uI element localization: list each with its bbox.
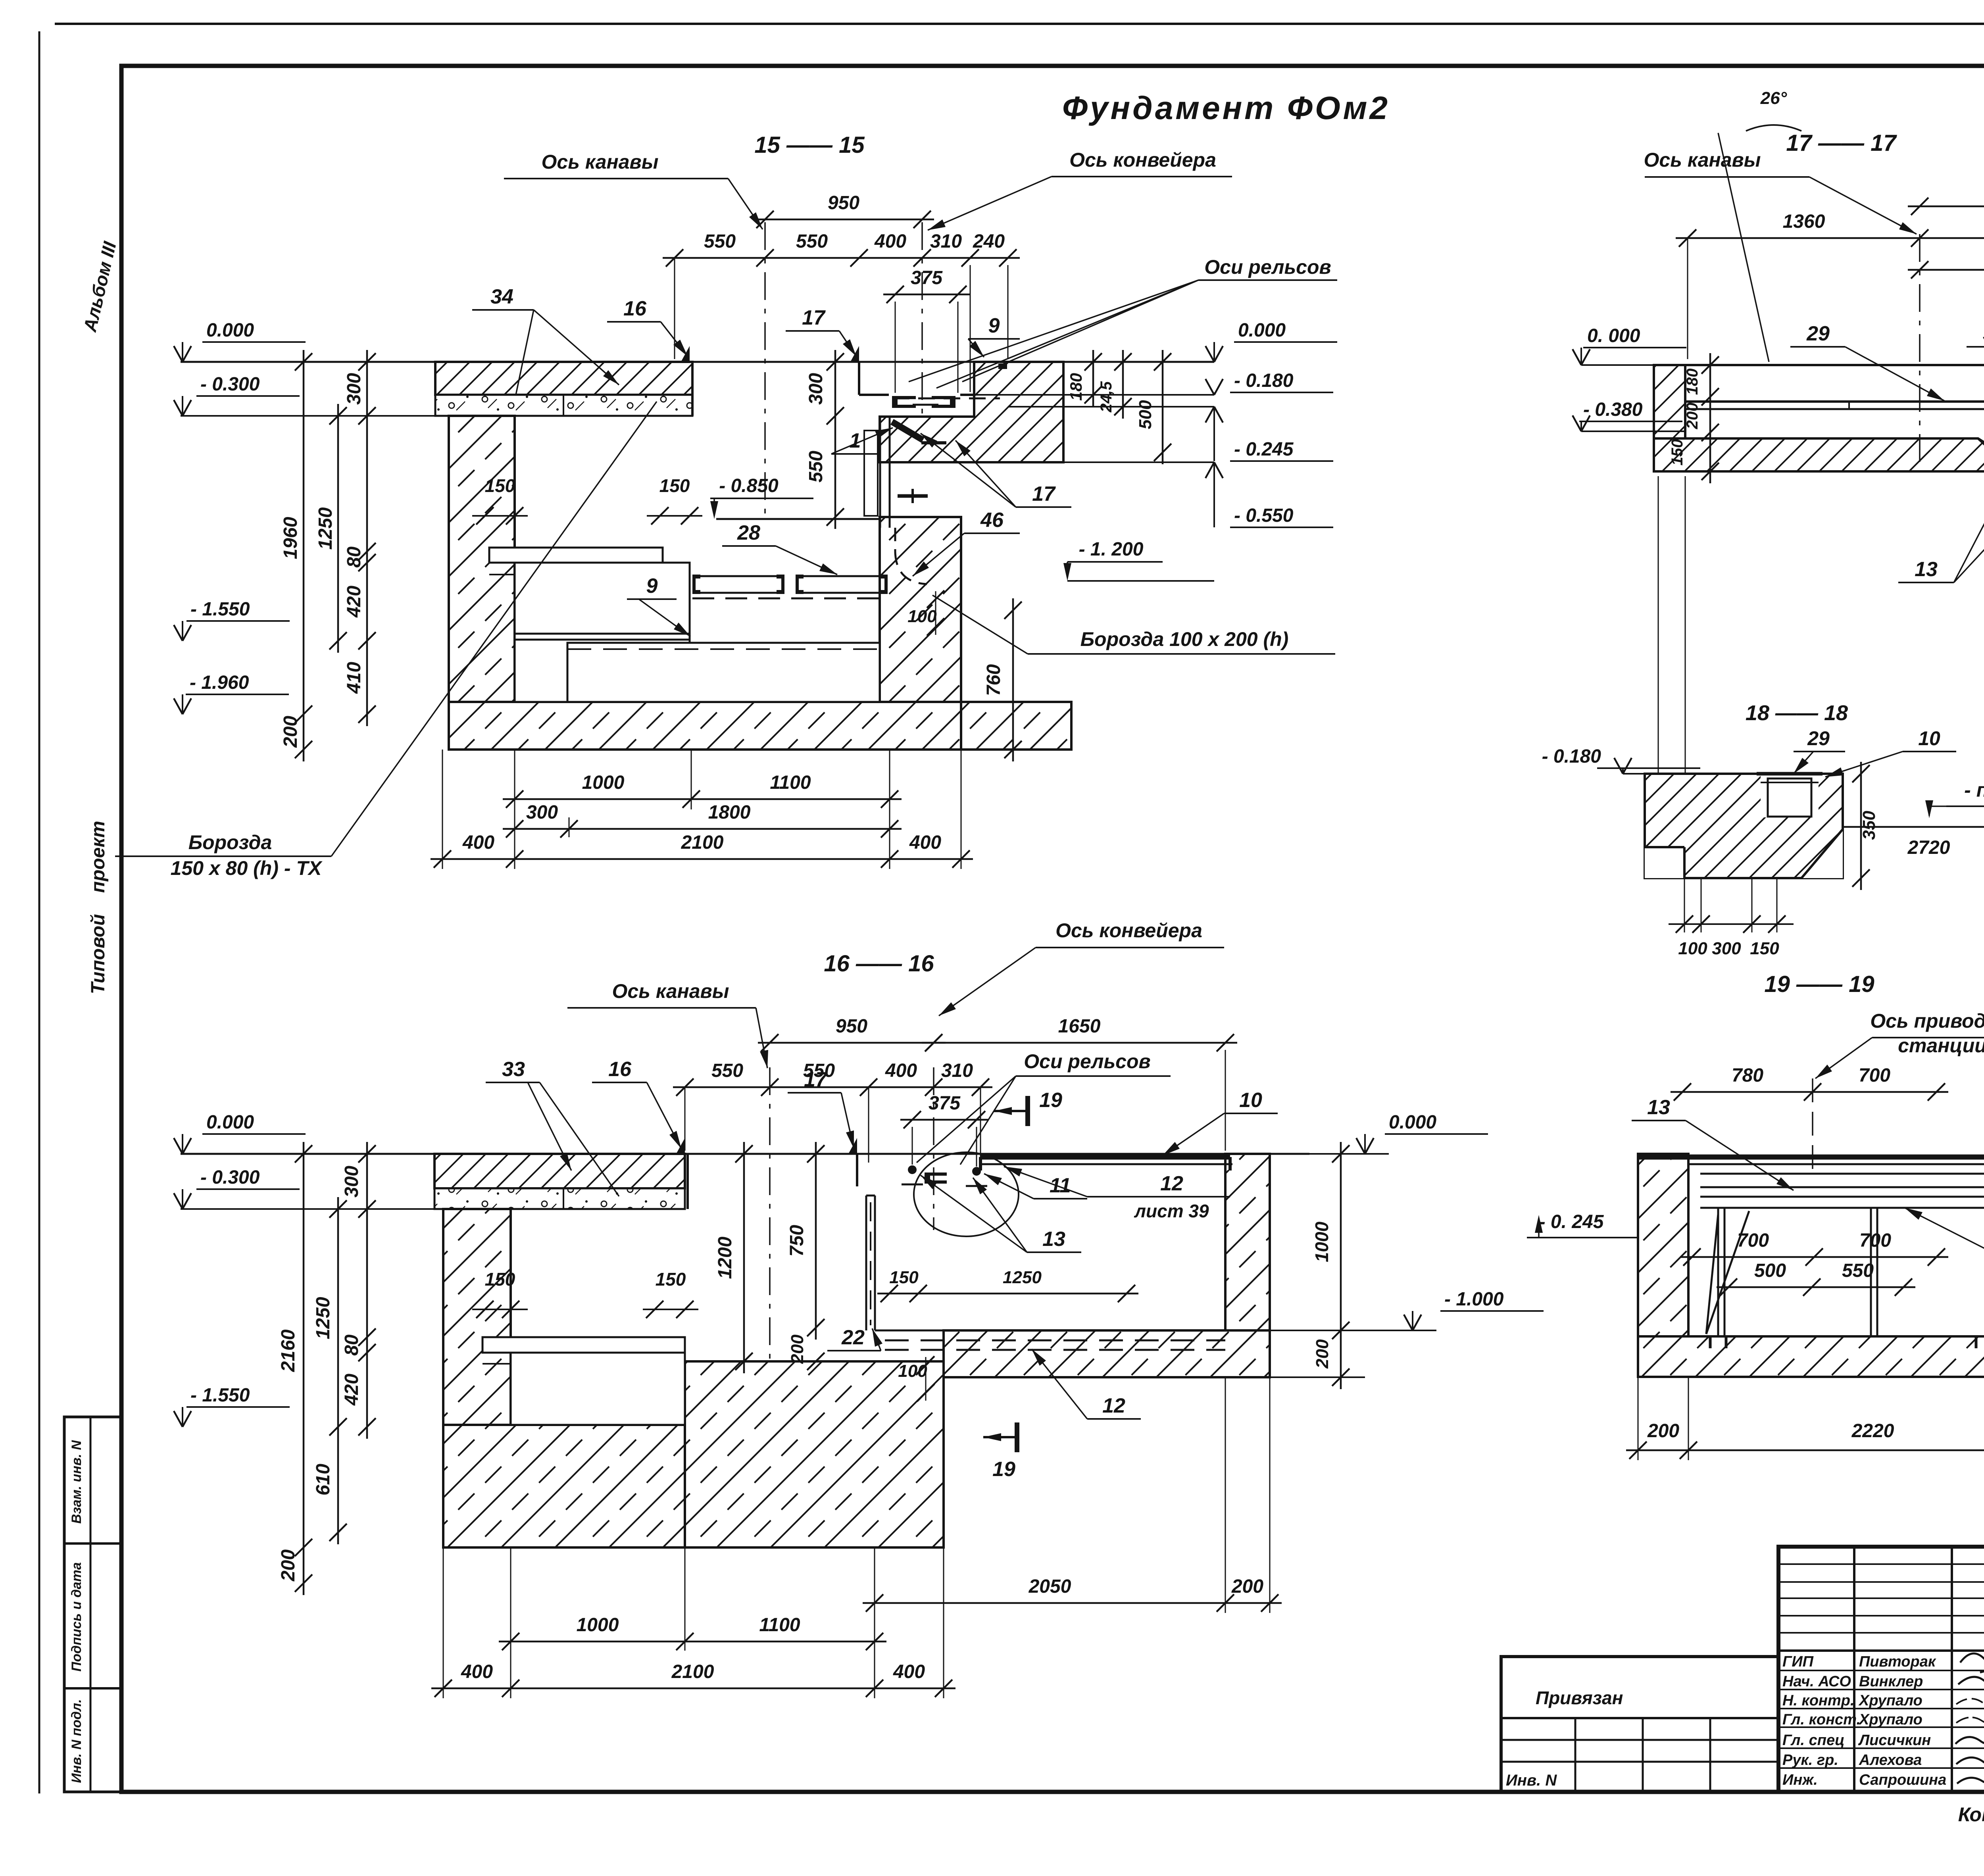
16-16 pit floor [685,1361,866,1363]
svg-text:Оси рельсов: Оси рельсов [1204,256,1331,278]
svg-text:28: 28 [737,521,760,544]
18-18 bottom-right slope cut [1801,829,1843,878]
svg-text:Взам. инв. N: Взам. инв. N [69,1440,84,1524]
svg-text:400: 400 [461,1661,493,1682]
sheet outer trim border [55,23,1984,25]
15-15 right level extension lines [1063,461,1214,463]
15-15 top dim 950 [753,219,934,221]
svg-text:100: 100 [1678,939,1707,958]
15-15 bottom foundation band [449,702,961,750]
15-15 dim 375 rails [883,294,970,296]
18-18 channel plate pos 29 [1757,772,1823,776]
16-16 section mark 19 bottom [1015,1422,1019,1452]
15-15 right lower wall [880,517,961,702]
svg-text:Алехова: Алехова [1859,1752,1922,1768]
svg-text:- 0.245: - 0.245 [1234,439,1294,460]
svg-text:1000: 1000 [1311,1221,1332,1262]
16-16 slab dotted layer [434,1188,685,1209]
svg-text:46: 46 [980,509,1004,532]
svg-text:0.000: 0.000 [206,320,254,341]
svg-text:150 х 80 (h) - ТХ: 150 х 80 (h) - ТХ [171,857,323,879]
15-15 left level marks [202,341,306,343]
svg-text:550: 550 [711,1060,743,1081]
19-19 conveyor frame rails [1700,1173,1984,1175]
svg-text:Ось конвейера: Ось конвейера [1055,919,1202,942]
svg-text:- 0.300: - 0.300 [200,374,260,395]
svg-text:19 —— 19: 19 —— 19 [1764,971,1874,997]
svg-text:1000: 1000 [582,772,625,793]
svg-text:1960: 1960 [280,517,301,559]
svg-text:300: 300 [806,373,827,405]
16-16 pit mouth angles [676,1138,685,1154]
svg-text:150: 150 [889,1268,919,1287]
19-19 top chain 780 700 [1671,1091,1948,1093]
svg-text:12: 12 [1102,1394,1125,1417]
svg-text:34: 34 [490,285,513,308]
svg-text:150: 150 [1669,439,1686,466]
svg-text:26°: 26° [1760,88,1787,108]
svg-text:300: 300 [344,373,365,405]
18-18 dim 350 [1860,762,1862,890]
svg-text:33: 33 [502,1058,525,1081]
svg-text:200: 200 [280,716,301,748]
svg-text:2720: 2720 [1907,837,1950,858]
svg-text:Гл. спец: Гл. спец [1782,1732,1845,1749]
15-15 gasket dashed lines [567,648,880,650]
svg-text:18 —— 18: 18 —— 18 [1746,701,1848,725]
svg-text:- 0.850: - 0.850 [719,475,779,496]
svg-text:550: 550 [796,231,828,252]
svg-text:16 —— 16: 16 —— 16 [824,951,934,976]
svg-text:- 0.300: - 0.300 [200,1167,260,1188]
15-15 axis conveyor centerline [921,222,923,421]
svg-text:1250: 1250 [315,507,336,550]
svg-text:1000: 1000 [577,1615,619,1636]
svg-text:Нач. АСО: Нач. АСО [1782,1673,1851,1690]
15-15 inner dim 300/550 [834,350,836,529]
svg-text:Оси рельсов: Оси рельсов [1024,1050,1150,1073]
15-15 white equipment box [515,563,690,702]
svg-text:16: 16 [608,1058,632,1081]
svg-text:22: 22 [841,1326,865,1349]
16-16 left dim columns [303,1142,305,1595]
svg-text:9: 9 [988,314,1000,337]
svg-text:200: 200 [1231,1576,1263,1597]
16-16 ground line [181,1153,1309,1155]
16-16 conveyor deck plate pos 10 [980,1155,1230,1160]
privyazan table [1501,1657,1778,1792]
svg-text:150: 150 [656,1269,686,1290]
svg-text:- 0.180: - 0.180 [1234,370,1294,391]
svg-text:Инв. N подл.: Инв. N подл. [69,1699,84,1783]
15-15 anchor tee [898,494,928,498]
svg-text:375: 375 [929,1093,961,1114]
svg-text:400: 400 [893,1661,925,1682]
15-15 bottom dim chains [514,750,515,869]
svg-text:- 0.380: - 0.380 [1583,399,1643,420]
svg-text:Ось канавы: Ось канавы [612,980,729,1002]
svg-text:950: 950 [828,192,859,213]
svg-text:2050: 2050 [1029,1576,1071,1597]
18-18 white channel recess [1761,774,1819,817]
svg-text:80: 80 [344,546,365,568]
17-17 left level marks [1583,347,1686,348]
19-19 mid dims 700 700 [1680,1256,1948,1258]
18-18 bottom-left notch [1645,847,1684,878]
svg-text:1200: 1200 [715,1236,736,1279]
svg-text:700: 700 [1859,1065,1890,1086]
16-16 left level marks [202,1133,306,1135]
18-18 level -0.180 [1597,767,1700,769]
svg-text:Сапрошина: Сапрошина [1859,1772,1946,1788]
svg-text:150: 150 [1750,939,1779,958]
svg-text:780: 780 [1732,1065,1763,1086]
svg-text:2100: 2100 [671,1661,714,1682]
16-16 polka ledge [483,1337,685,1353]
svg-text:Ось канавы: Ось канавы [542,151,659,173]
svg-text:200: 200 [1684,403,1701,430]
svg-text:17: 17 [1032,482,1056,506]
16-16 right level mark [1385,1133,1488,1135]
svg-text:Инв. N: Инв. N [1506,1772,1557,1789]
svg-text:- 0.180: - 0.180 [1542,746,1601,767]
19-19 drive axis [1812,1078,1813,1174]
15-15 pit inner ledge shelf (polka) [489,548,663,563]
16-16 shallow band under conveyor trench [944,1330,1270,1377]
19-19 deck plate pos 10 [1638,1155,1984,1160]
15-15 conveyor channel recess profile [859,394,889,396]
16-16 section mark 19 top [1025,1096,1030,1126]
svg-text:420: 420 [341,1374,362,1406]
svg-text:Копировал: Копировал [1958,1803,1984,1826]
svg-text:400: 400 [462,832,494,853]
17-17 top dims [1908,206,1984,208]
15-15 pit mouth embedded angle left (pos 16) [681,346,690,362]
svg-text:550: 550 [1842,1260,1874,1281]
svg-text:Борозда: Борозда [188,831,272,853]
svg-text:180: 180 [1684,369,1701,395]
svg-text:Рук. гр.: Рук. гр. [1782,1752,1838,1768]
19-19 feet bolts [1709,1336,1712,1348]
19-19 dims 500 550 [1717,1286,1915,1288]
svg-text:1100: 1100 [759,1615,800,1636]
16-16 rail bolts [908,1165,917,1174]
16-16 left wall [443,1209,511,1547]
rail channel C-profiles in recess [892,396,916,408]
svg-text:13: 13 [1042,1228,1065,1251]
15-15 support channels (pos 28) [692,575,700,594]
16-16 right wall [1225,1154,1270,1330]
svg-text:Привязан: Привязан [1536,1688,1623,1708]
svg-text:240: 240 [973,231,1005,252]
svg-text:200: 200 [788,1334,807,1364]
19-19 diagonal brace [1706,1211,1749,1334]
17-17 ground top line [1581,364,1685,366]
svg-text:100: 100 [907,607,937,626]
15-15 ground line 0.000 [181,361,1214,363]
svg-text:1250: 1250 [313,1297,334,1339]
svg-text:180: 180 [1067,373,1085,401]
19-19 bottom chain 200 2220 200 [1626,1449,1984,1451]
16-16 detail circle [914,1152,1019,1236]
svg-text:1100: 1100 [770,772,811,793]
svg-text:Пивторак: Пивторак [1859,1653,1936,1670]
svg-text:1800: 1800 [708,802,751,823]
svg-text:- переменная: - переменная [1964,779,1984,801]
17-17 trench axis [1919,234,1921,472]
svg-text:16: 16 [623,297,647,320]
svg-text:0.000: 0.000 [206,1112,254,1133]
svg-text:Н. контр.: Н. контр. [1782,1692,1855,1709]
svg-text:- 0.550: - 0.550 [1234,505,1294,526]
svg-text:Типовой проект: Типовой проект [88,821,109,994]
15-15 lower concrete pad [567,643,880,702]
svg-text:550: 550 [806,451,827,482]
svg-text:950: 950 [836,1016,867,1037]
svg-text:- 1.550: - 1.550 [190,1385,250,1406]
svg-text:2100: 2100 [681,832,724,853]
svg-text:760: 760 [983,664,1004,696]
15-15 right pocket column [879,417,881,528]
17-17 bottom slab [1654,438,1984,471]
svg-text:11: 11 [1050,1174,1071,1197]
svg-text:750: 750 [786,1225,807,1257]
svg-text:2220: 2220 [1851,1420,1894,1442]
svg-text:375: 375 [911,267,943,288]
svg-text:- 1. 200: - 1. 200 [1079,539,1144,560]
title block signature rows [1778,1563,1984,1565]
svg-text:Хрупало: Хрупало [1858,1692,1922,1709]
19-19 frame legs [1717,1208,1719,1336]
svg-text:200: 200 [1313,1339,1332,1369]
16-16 element 22 wall [865,1196,867,1330]
svg-text:400: 400 [909,832,941,853]
svg-text:400: 400 [874,231,906,252]
16-16 rail channel profile [925,1172,947,1184]
svg-text:лист 39: лист 39 [1134,1201,1209,1221]
16-16 trench floor right part [875,1330,1225,1332]
svg-text:200: 200 [278,1549,299,1582]
title block outer [1778,1547,1984,1792]
left bottom stamp column [64,1417,121,1792]
svg-text:2160: 2160 [278,1329,299,1372]
svg-text:- 0. 245: - 0. 245 [1539,1211,1604,1232]
16-16 right dims 1000/200 [1340,1142,1342,1389]
15-15 floor slab hatched [435,362,692,395]
16-16 vertical dims inside [743,1142,745,1373]
svg-text:Инж.: Инж. [1782,1772,1818,1788]
svg-text:Фундамент ФОм2: Фундамент ФОм2 [1062,90,1390,126]
15-15 top right block [880,362,1063,462]
svg-text:- 1.550: - 1.550 [190,599,250,620]
svg-text:1650: 1650 [1058,1016,1101,1037]
svg-text:- 1.000: - 1.000 [1444,1289,1504,1310]
svg-text:100: 100 [898,1361,927,1381]
15-15 top chain 550 550 400 310 240 [663,257,1020,259]
16-16 top dims [758,1042,946,1044]
svg-text:150: 150 [485,1269,515,1290]
16-16 gasket dashed pos 12 [885,1340,1225,1342]
svg-text:9: 9 [646,575,658,598]
15-15 right small dims 180/245/500 [1092,350,1094,407]
18-18 bottom chain 100 300 150 [1669,923,1794,925]
svg-text:29: 29 [1806,322,1830,345]
svg-text:13: 13 [1915,558,1938,581]
svg-text:300: 300 [341,1166,362,1197]
svg-text:Ось приводной: Ось приводной [1870,1010,1984,1032]
svg-text:15 —— 15: 15 —— 15 [754,132,865,158]
19-19 box bottom slab [1638,1336,1984,1377]
svg-text:1360: 1360 [1783,211,1825,232]
15-15 drain pipe pos 46 dashed [895,552,927,584]
svg-text:17: 17 [802,306,826,329]
svg-text:17: 17 [804,1068,828,1091]
svg-text:350: 350 [1859,811,1879,840]
15-15 slab base dotted layer [435,395,692,416]
svg-text:300: 300 [1712,939,1741,958]
15-15 pit floor step -0.850 [716,518,880,520]
svg-text:200: 200 [1647,1420,1679,1442]
15-15 pit mouth embedded angle right (pos 17) [850,346,859,362]
svg-text:410: 410 [344,662,365,694]
svg-text:550: 550 [704,231,736,252]
16-16 floor slab hatched [434,1154,685,1188]
svg-text:Ось конвейера: Ось конвейера [1069,149,1216,171]
16-16 deep mass under pit [685,1361,944,1547]
svg-text:1: 1 [850,429,861,452]
15-15 axis trench centerline [764,222,766,516]
svg-text:150: 150 [485,475,515,496]
15-15 dim 760 [1012,598,1014,761]
15-15 left dim column 1960/1250/300 [303,350,305,761]
svg-text:310: 310 [941,1060,973,1081]
svg-text:29: 29 [1807,727,1830,750]
svg-text:24,5: 24,5 [1098,381,1115,413]
svg-text:Подпись и дата: Подпись и дата [69,1562,84,1672]
svg-text:80: 80 [341,1334,362,1356]
svg-text:0. 000: 0. 000 [1587,325,1640,346]
svg-text:Винклер: Винклер [1859,1673,1923,1690]
15-15 embedded angle pieces in pocket [890,419,925,443]
svg-text:13: 13 [1647,1096,1670,1119]
svg-text:- 1.960: - 1.960 [190,672,249,693]
svg-text:17 —— 17: 17 —— 17 [1786,130,1897,156]
17-17 left wall [1654,365,1685,471]
svg-text:310: 310 [930,231,962,252]
17-17 floor plate pos 29 [1685,400,1984,403]
svg-text:500: 500 [1754,1260,1786,1281]
svg-text:400: 400 [885,1060,917,1081]
15-15 left pit wall [449,416,515,702]
16-16 white box [511,1353,685,1425]
svg-text:Хрупало: Хрупало [1858,1711,1922,1728]
svg-text:19: 19 [992,1458,1015,1481]
svg-text:12: 12 [1160,1172,1183,1195]
16-16 axis conveyor [933,1067,934,1230]
svg-text:0.000: 0.000 [1389,1112,1436,1133]
15-15 timber pad pos 1 [864,431,878,516]
svg-text:Гл. конст.: Гл. конст. [1782,1711,1861,1728]
svg-text:ГИП: ГИП [1782,1653,1814,1670]
16-16 axis trench [769,1067,771,1361]
svg-text:700: 700 [1859,1230,1891,1251]
svg-text:Ось канавы: Ось канавы [1644,149,1761,171]
15-15 bottom band right extension [961,702,1071,750]
title block verticals [1853,1547,1855,1792]
19-19 box left wall [1638,1154,1688,1336]
17-17 left rotated dims [1709,353,1711,483]
16-16 bottom dims [510,1547,511,1698]
svg-text:420: 420 [344,586,365,618]
svg-text:Лисичкин: Лисичкин [1858,1732,1931,1749]
15-15 right level marks [1234,341,1337,343]
16-16 mass under box [443,1425,685,1547]
svg-text:300: 300 [526,802,558,823]
svg-text:Борозда 100 х 200 (h): Борозда 100 х 200 (h) [1080,628,1289,650]
svg-text:610: 610 [313,1464,334,1495]
svg-text:10: 10 [1918,727,1940,750]
15-15 recess dashed embed line [893,398,1000,400]
svg-text:0.000: 0.000 [1238,320,1286,341]
svg-text:700: 700 [1737,1230,1769,1251]
signatures squiggles [1960,1653,1984,1676]
svg-text:500: 500 [1136,400,1155,429]
17-17 slope transition lines [1978,438,1984,520]
svg-text:10: 10 [1239,1089,1262,1112]
15-15 plate element 9 [515,633,690,635]
svg-text:19: 19 [1039,1089,1062,1112]
svg-text:150: 150 [659,475,690,496]
18-18 hatched body [1645,774,1843,878]
svg-text:1250: 1250 [1003,1268,1042,1287]
